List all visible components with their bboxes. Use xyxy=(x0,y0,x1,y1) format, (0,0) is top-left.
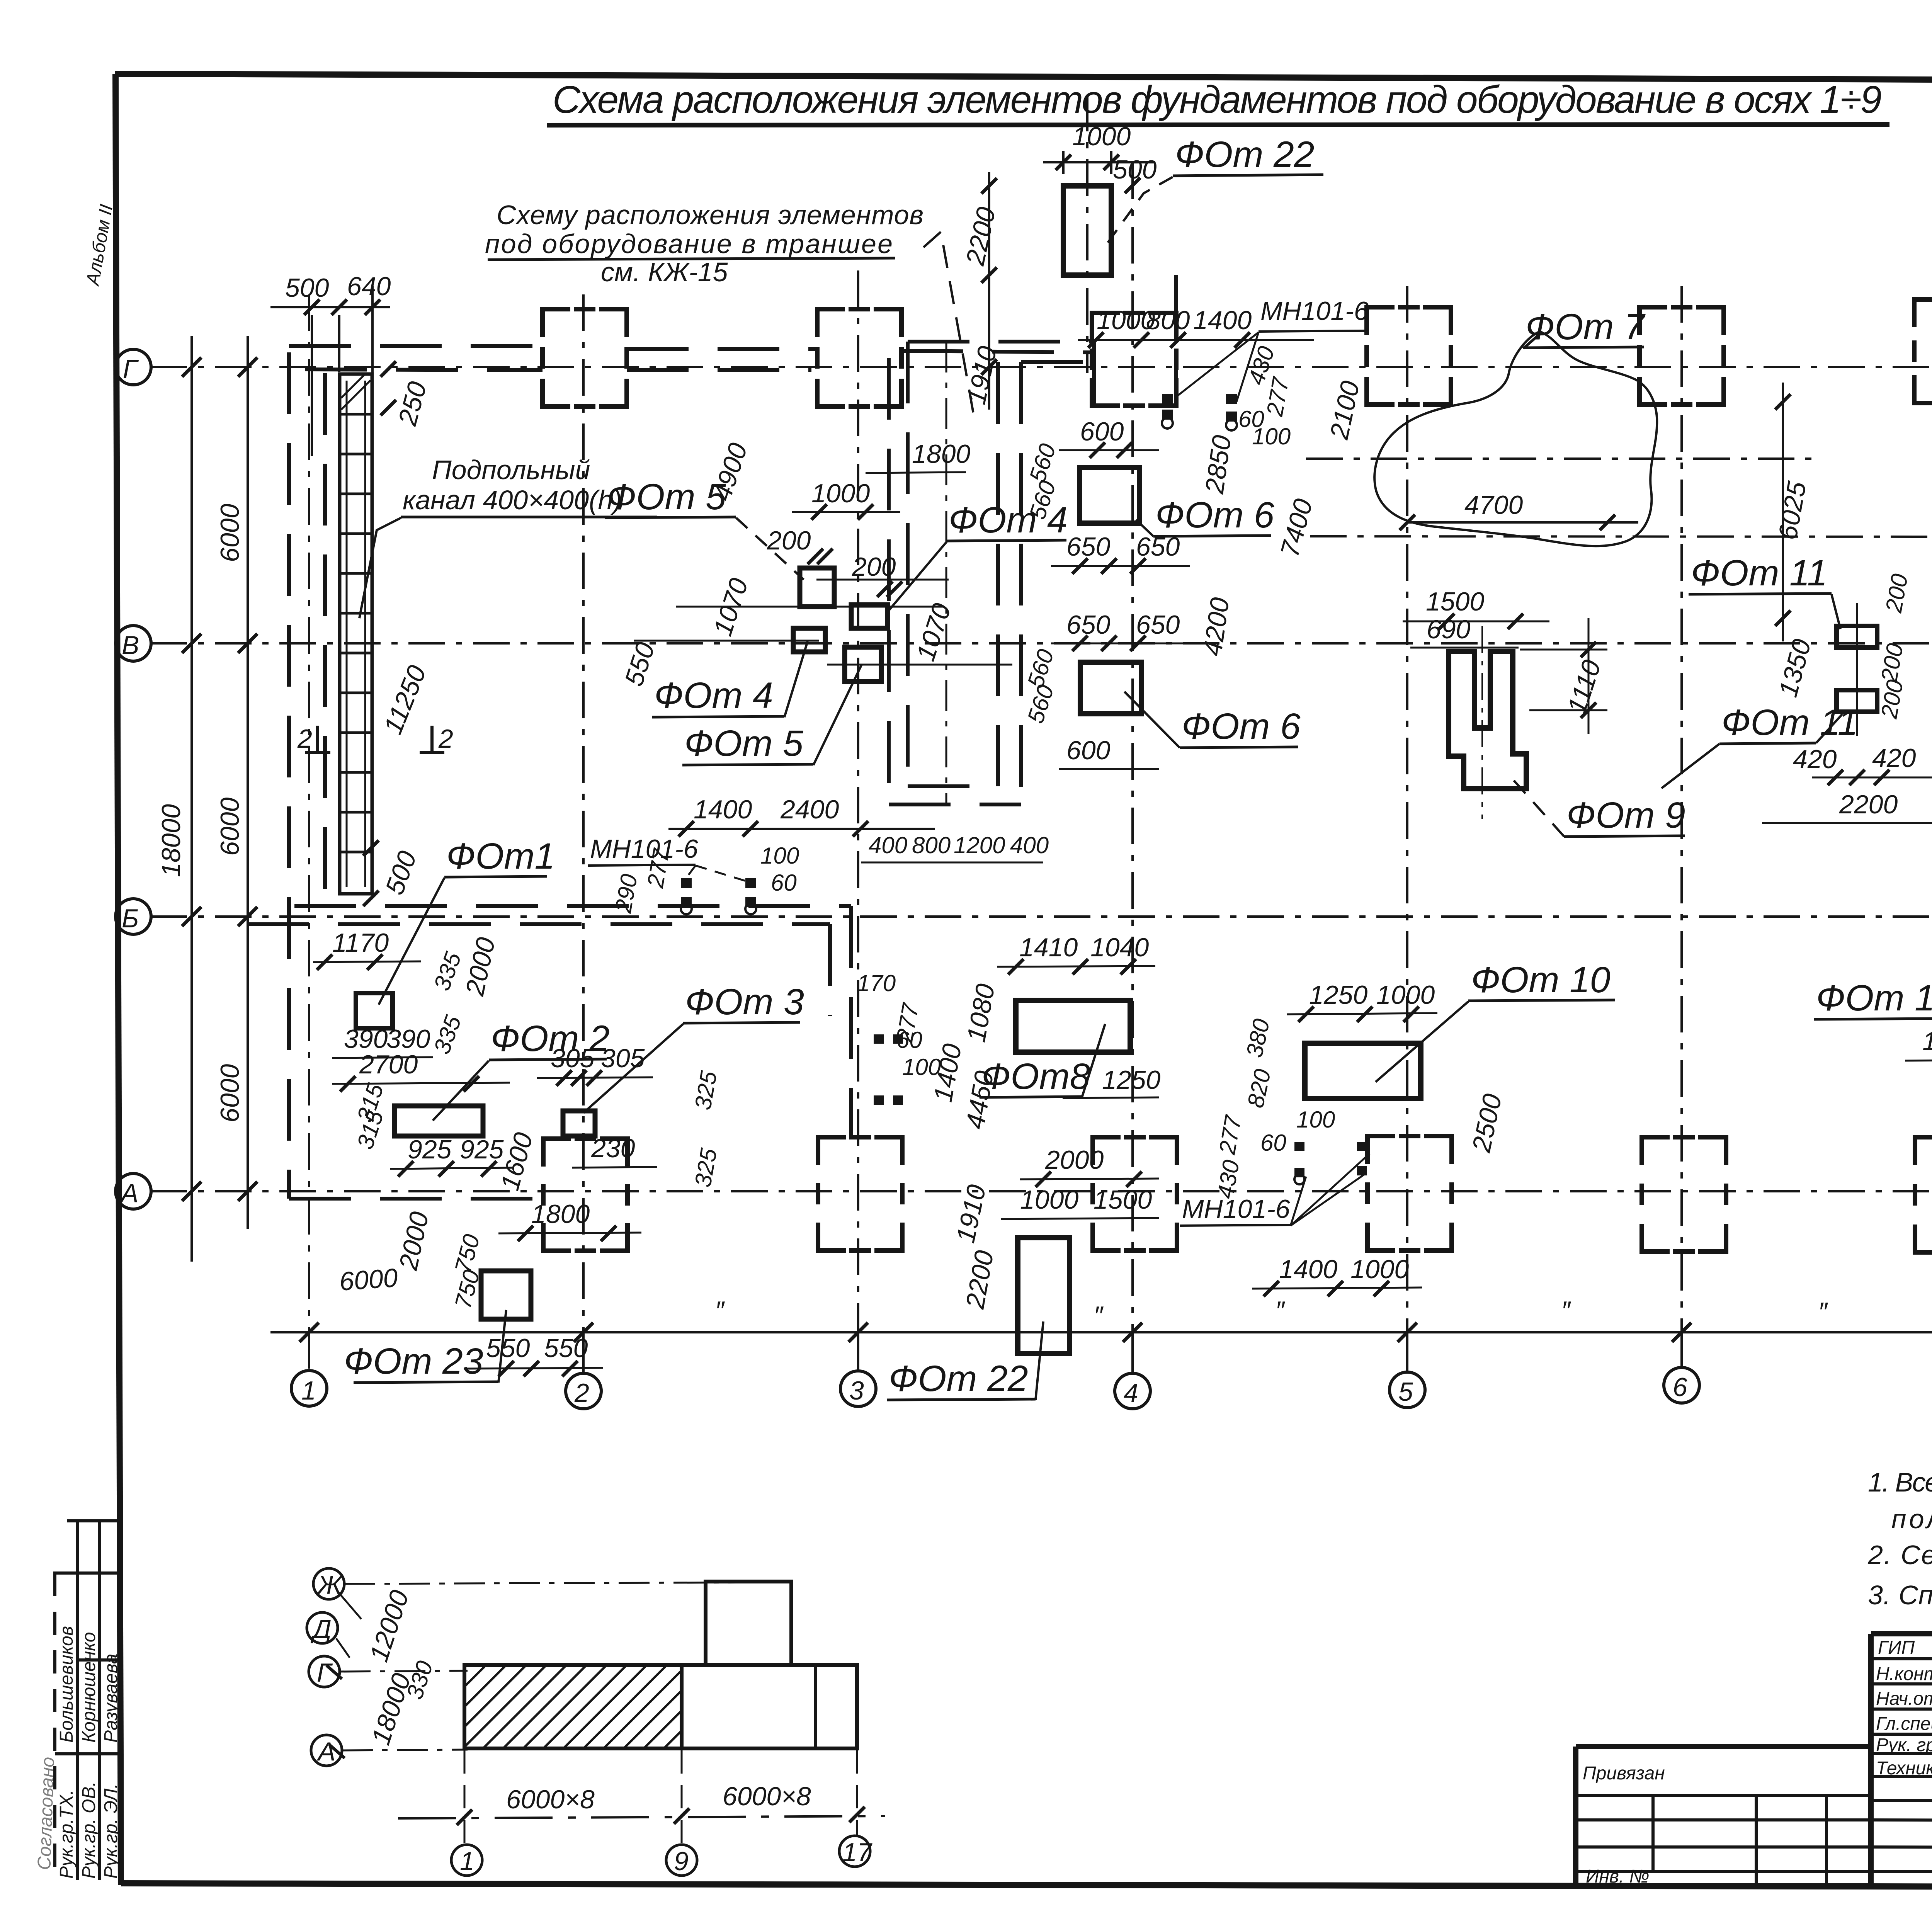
svg-text:420: 420 xyxy=(1872,743,1916,773)
svg-text:ФОт 4: ФОт 4 xyxy=(654,675,773,716)
svg-text:600: 600 xyxy=(1066,736,1111,765)
trench top to Г xyxy=(908,342,1096,362)
channel leader xyxy=(359,518,401,618)
keyplan circle 9 xyxy=(666,1845,697,1876)
anchor bolts near axis 3 xyxy=(874,1034,903,1105)
svg-text:ГИП: ГИП xyxy=(1878,1638,1915,1658)
svg-text:5: 5 xyxy=(1398,1377,1413,1406)
keyplan circle 1 xyxy=(451,1845,482,1876)
axis 1 line xyxy=(308,294,310,1332)
svg-text:305: 305 xyxy=(551,1044,595,1073)
svg-text:1250: 1250 xyxy=(1309,980,1367,1010)
keyplan circle Д xyxy=(307,1612,338,1643)
svg-text:Рук.гр. ЭЛ.: Рук.гр. ЭЛ. xyxy=(101,1784,121,1879)
axis circle А xyxy=(116,1173,151,1209)
section mark 2 right xyxy=(420,726,444,753)
cloud ФОт7 xyxy=(1374,332,1657,546)
svg-text:канал 400×400(h): канал 400×400(h) xyxy=(403,485,622,515)
keyplan axis leaders xyxy=(336,1592,361,1658)
axis Г horizontal chain line xyxy=(150,366,1932,368)
axis bottom circle 3 xyxy=(840,1371,876,1406)
svg-text:1: 1 xyxy=(460,1847,474,1876)
vertical axis lines 1-9 xyxy=(309,162,1932,1332)
anchor bolts at Г-4 xyxy=(1162,394,1237,422)
svg-text:800: 800 xyxy=(912,832,951,858)
foundation ФОт22 top xyxy=(1063,186,1111,275)
keyplan inner line xyxy=(814,1665,817,1748)
anchor bolts on Б wall xyxy=(681,878,756,907)
column А-2 xyxy=(543,1139,628,1251)
bottom dimension line xyxy=(270,1331,1932,1333)
svg-text:1040: 1040 xyxy=(1090,933,1149,962)
svg-text:″: ″ xyxy=(715,1296,725,1325)
trench near axis 4 verticals xyxy=(1094,275,1176,406)
svg-text:1000: 1000 xyxy=(1350,1255,1409,1284)
ladder rungs xyxy=(340,414,371,852)
svg-text:100: 100 xyxy=(1252,423,1291,449)
foundation ФОт9 left keyed block xyxy=(1449,651,1526,789)
svg-text:1150: 1150 xyxy=(1922,1027,1932,1056)
keyplan upper block xyxy=(706,1582,791,1665)
svg-text:650: 650 xyxy=(1066,610,1111,639)
wall: along А left xyxy=(289,1197,543,1201)
svg-text:1000: 1000 xyxy=(1020,1185,1078,1214)
keyplan circle Ж xyxy=(313,1568,344,1599)
svg-text:МН101-6: МН101-6 xyxy=(1260,296,1369,326)
left margin rotated labels xyxy=(34,1626,121,1879)
svg-text:Большевиков: Большевиков xyxy=(56,1626,77,1743)
svg-text:1000: 1000 xyxy=(1376,980,1435,1010)
svg-text:Корнюшенко: Корнюшенко xyxy=(79,1632,99,1743)
keyplan circle А xyxy=(311,1735,342,1766)
foundation ФОт5 square b xyxy=(851,605,888,628)
frame left line xyxy=(116,74,121,1885)
axis 4 line xyxy=(1131,162,1134,1332)
axis 5 line xyxy=(1406,286,1408,1332)
dim 2200/1910 vertical left of ФОт22 xyxy=(988,172,990,410)
svg-text:Схема расположения элементов: Схема расположения элементов фундаментов… xyxy=(553,78,1882,121)
svg-text:2400: 2400 xyxy=(780,795,839,824)
svg-text:60: 60 xyxy=(1260,1130,1286,1156)
axis line stubs to circles xyxy=(309,1332,1932,1372)
svg-text:под оборудование в траншее: под оборудование в траншее xyxy=(485,229,893,259)
dim 500/640 above channel xyxy=(270,286,390,456)
svg-text:ФОт 6: ФОт 6 xyxy=(1182,706,1301,747)
svg-text:305: 305 xyxy=(601,1044,645,1073)
machine centre line through ФОт7 cloud xyxy=(1306,457,1812,460)
foundation ФОт5 square c xyxy=(845,647,881,682)
svg-text:1000: 1000 xyxy=(811,479,870,508)
svg-text:Н.контр.: Н.контр. xyxy=(1876,1664,1932,1684)
svg-text:170: 170 xyxy=(857,970,896,996)
svg-text:ФОт 5: ФОт 5 xyxy=(684,723,804,764)
svg-text:ФОт 22: ФОт 22 xyxy=(1175,134,1315,175)
svg-text:″: ″ xyxy=(1275,1296,1285,1325)
axis Б horizontal chain line xyxy=(150,915,1932,918)
svg-text:3: 3 xyxy=(849,1376,864,1405)
foundation ФОт6 lower xyxy=(1080,662,1141,714)
foundation ФОт8 xyxy=(1016,1000,1130,1052)
svg-text:2: 2 xyxy=(574,1378,589,1408)
axis circle В xyxy=(116,626,151,661)
svg-text:2: 2 xyxy=(297,724,312,753)
svg-text:Схему расположения элементов: Схему расположения элементов xyxy=(497,200,923,230)
signature rows text xyxy=(1876,1638,1932,1779)
svg-text:1410: 1410 xyxy=(1019,933,1078,962)
svg-text:4: 4 xyxy=(1124,1378,1138,1408)
wall: Б-А vertical pair near axis 3 xyxy=(830,906,851,1137)
axis bottom circle 2 xyxy=(566,1373,601,1409)
foundation ФОт3 xyxy=(563,1111,595,1136)
keyplan circle Г xyxy=(309,1656,340,1687)
svg-text:Привязан: Привязан xyxy=(1583,1763,1665,1784)
column А-7 xyxy=(1915,1137,1932,1252)
section mark 2 left xyxy=(305,726,330,753)
svg-text:ФОт 7: ФОт 7 xyxy=(1526,306,1646,347)
svg-text:1250: 1250 xyxy=(1102,1065,1160,1095)
svg-text:Согласовано: Согласовано xyxy=(34,1757,58,1870)
svg-text:500: 500 xyxy=(285,273,329,303)
axis 3 line xyxy=(857,270,859,1332)
svg-text:″: ″ xyxy=(1818,1297,1828,1327)
svg-text:1500: 1500 xyxy=(1094,1185,1152,1214)
axis bottom circle 5 xyxy=(1389,1372,1425,1408)
svg-text:Б: Б xyxy=(122,904,139,933)
wall: Б inner xyxy=(247,922,830,926)
svg-text:ФОт 3: ФОт 3 xyxy=(685,981,804,1022)
machine centre line through ФОт13 xyxy=(1310,536,1932,537)
svg-text:650: 650 xyxy=(1066,532,1111,561)
svg-text:390: 390 xyxy=(386,1024,430,1054)
svg-text:1800: 1800 xyxy=(912,439,970,469)
svg-text:ФОт 22: ФОт 22 xyxy=(889,1358,1028,1399)
svg-text:ФОт 12: ФОт 12 xyxy=(1816,978,1932,1019)
bottom dim ticks xyxy=(299,1323,1932,1342)
trench bottom xyxy=(889,786,1021,804)
svg-text:200: 200 xyxy=(767,526,811,555)
column Г-5 xyxy=(1367,307,1451,405)
svg-text:Д: Д xyxy=(310,1614,332,1644)
svg-text:1500: 1500 xyxy=(1426,587,1484,616)
keyplan circle 17 xyxy=(839,1836,870,1867)
column Г-2 xyxy=(543,309,627,406)
svg-text:2200: 2200 xyxy=(1839,790,1898,819)
foundation ФОт6 upper xyxy=(1080,468,1139,523)
svg-text:400: 400 xyxy=(869,832,907,858)
column А-3 xyxy=(818,1137,902,1250)
svg-text:6000: 6000 xyxy=(215,798,245,856)
svg-text:ФОт 6: ФОт 6 xyxy=(1155,495,1274,536)
svg-text:Рук. гр.: Рук. гр. xyxy=(1876,1735,1932,1755)
svg-text:ФОт 9: ФОт 9 xyxy=(1566,795,1685,836)
keyplan building outline xyxy=(464,1665,857,1748)
foundation ФОт11 lower xyxy=(1837,690,1877,712)
frame bottom line xyxy=(121,1883,1932,1888)
axis bottom circle 6 xyxy=(1664,1367,1699,1403)
titleblock outline xyxy=(1576,1634,1932,1887)
svg-text:см. КЖ-15: см. КЖ-15 xyxy=(601,257,728,287)
svg-text:650: 650 xyxy=(1136,610,1180,639)
trench centre line xyxy=(946,342,947,804)
svg-text:ФОт 10: ФОт 10 xyxy=(1471,959,1611,1000)
axis 2 line xyxy=(582,294,585,1332)
axis В horizontal chain line xyxy=(150,642,1932,645)
keyplan dim ticks left xyxy=(327,1665,345,1758)
svg-text:Инв. №: Инв. № xyxy=(1586,1866,1649,1887)
svg-text:6000: 6000 xyxy=(215,504,245,562)
svg-text:1000: 1000 xyxy=(1072,122,1131,151)
svg-text:1400: 1400 xyxy=(1279,1255,1337,1284)
dim lines through ФОт4/5 cluster xyxy=(634,580,1012,665)
svg-text:1800: 1800 xyxy=(531,1199,590,1229)
svg-text:Нач.отд.: Нач.отд. xyxy=(1876,1689,1932,1709)
svg-text:ФОт 23: ФОт 23 xyxy=(344,1341,483,1382)
svg-text:1: 1 xyxy=(301,1376,316,1405)
left dim chain 6000s xyxy=(247,336,249,1229)
svg-text:А: А xyxy=(316,1737,335,1766)
left dim chain 18000 xyxy=(190,336,193,1262)
svg-text:400: 400 xyxy=(1010,832,1049,858)
svg-text:6000: 6000 xyxy=(215,1064,245,1122)
svg-text:60: 60 xyxy=(771,870,797,896)
svg-text:1400: 1400 xyxy=(694,795,752,824)
svg-text:3. Спецификацию см. на лист: 3. Спецификацию см. на листе КЖ-15. xyxy=(1868,1580,1932,1610)
svg-text:6000×8: 6000×8 xyxy=(723,1782,811,1811)
foundation ФОт11 upper xyxy=(1837,626,1877,648)
column Г-6 xyxy=(1639,307,1724,405)
keyplan axis line Г xyxy=(340,1671,468,1672)
svg-text:Разуваева: Разуваева xyxy=(101,1654,121,1743)
foundation ФОт2 xyxy=(395,1106,483,1136)
leader from note to trench xyxy=(923,232,974,415)
keyplan axis line Ж xyxy=(344,1582,792,1584)
svg-text:Ж: Ж xyxy=(316,1570,343,1600)
svg-text:2: 2 xyxy=(438,724,453,753)
svg-text:″: ″ xyxy=(1094,1301,1104,1330)
svg-text:640: 640 xyxy=(347,272,391,301)
svg-text:17: 17 xyxy=(842,1838,872,1867)
svg-text:550: 550 xyxy=(544,1333,588,1363)
svg-text:2700: 2700 xyxy=(359,1050,418,1079)
underground channel ladder inner rails xyxy=(347,381,365,887)
svg-text:1. Все незамаркированные пли: 1. Все незамаркированные плиты перекрыти… xyxy=(1868,1467,1932,1497)
svg-text:А: А xyxy=(119,1179,138,1208)
svg-text:200: 200 xyxy=(852,552,896,582)
svg-text:Рук.гр. ОВ.: Рук.гр. ОВ. xyxy=(79,1781,99,1879)
keyplan hatched block xyxy=(464,1665,682,1748)
titleblock left grid xyxy=(1576,1796,1871,1886)
svg-text:6000: 6000 xyxy=(338,1263,399,1296)
svg-text:100: 100 xyxy=(760,843,799,869)
svg-text:100: 100 xyxy=(1296,1107,1335,1133)
column Г-4 xyxy=(1092,313,1176,406)
axis circle Б xyxy=(116,899,151,934)
svg-text:650: 650 xyxy=(1136,532,1180,561)
svg-text:2000: 2000 xyxy=(1045,1145,1104,1175)
foundation ФОт5 square a xyxy=(800,568,834,607)
wall: building left edge along axis 1 xyxy=(287,352,291,1199)
column А-4 xyxy=(1093,1137,1177,1250)
svg-text:Гл.спец.: Гл.спец. xyxy=(1876,1714,1932,1734)
svg-text:420: 420 xyxy=(1793,745,1837,774)
svg-text:500: 500 xyxy=(1113,155,1157,184)
channel hatch top xyxy=(341,375,371,410)
svg-text:Г: Г xyxy=(123,354,139,384)
svg-text:925: 925 xyxy=(408,1135,452,1164)
keyplan axis stubs xyxy=(464,1750,857,1845)
svg-text:ФОт 11: ФОт 11 xyxy=(1721,702,1858,743)
svg-text:ФОт 11: ФОт 11 xyxy=(1691,553,1828,594)
svg-text:В: В xyxy=(122,631,139,660)
axis bottom circle 1 xyxy=(291,1371,327,1406)
svg-text:1200: 1200 xyxy=(954,832,1005,858)
bolts group below ФОт10 xyxy=(1294,1142,1367,1177)
svg-text:ФОт1: ФОт1 xyxy=(446,836,555,877)
foundation ФОт22 bottom xyxy=(1018,1238,1070,1354)
wall: below Г inner xyxy=(323,373,327,896)
foundation ФОт4 square a xyxy=(793,628,825,652)
svg-text:9: 9 xyxy=(674,1847,689,1876)
svg-text:Г: Г xyxy=(317,1658,333,1687)
foundation ФОт1 xyxy=(356,993,393,1028)
signature table grid xyxy=(1871,1634,1932,1872)
svg-text:690: 690 xyxy=(1427,615,1471,644)
svg-text:МН101-6: МН101-6 xyxy=(590,834,698,864)
keyplan dim line xyxy=(398,1816,885,1818)
centre line ФОт22 top xyxy=(1086,95,1088,373)
svg-text:390: 390 xyxy=(344,1024,388,1054)
foundation ФОт10 xyxy=(1305,1043,1421,1099)
svg-text:800: 800 xyxy=(1146,306,1190,335)
frame top line xyxy=(115,74,1932,82)
dims at ФОт22 top xyxy=(1043,151,1155,174)
wall: Б outer xyxy=(294,904,851,908)
svg-text:6: 6 xyxy=(1673,1372,1687,1402)
column Г-7 xyxy=(1914,299,1932,403)
svg-text:2. Сечения 1-1, 2-2 см. на: 2. Сечения 1-1, 2-2 см. на листе КЖ-16. xyxy=(1867,1540,1932,1570)
keyplan axis line А xyxy=(342,1750,468,1750)
svg-text:230: 230 xyxy=(591,1134,635,1163)
column А-5 xyxy=(1367,1136,1452,1250)
svg-text:1170: 1170 xyxy=(332,928,389,957)
wall: top edge along Г xyxy=(289,346,1092,352)
svg-text:925: 925 xyxy=(460,1135,504,1164)
svg-text:18000: 18000 xyxy=(156,804,186,877)
foundation ФОт23 xyxy=(481,1271,531,1319)
svg-text:ФОт 5: ФОт 5 xyxy=(607,476,726,517)
svg-text:МН101-6: МН101-6 xyxy=(1182,1194,1290,1224)
axis bottom circle 4 xyxy=(1115,1373,1150,1409)
axis circle Г xyxy=(116,349,151,385)
svg-text:1400: 1400 xyxy=(1193,306,1252,335)
svg-text:600: 600 xyxy=(1080,417,1124,446)
svg-text:Рук.гр.ТХ.: Рук.гр.ТХ. xyxy=(56,1790,77,1879)
left margin table xyxy=(53,1521,121,1880)
svg-text:Подпольный: Подпольный xyxy=(432,455,590,485)
axis А horizontal chain line xyxy=(150,1190,1932,1192)
underground channel ladder outer xyxy=(340,374,372,894)
svg-text:6000×8: 6000×8 xyxy=(506,1785,595,1814)
svg-text:″: ″ xyxy=(1561,1296,1571,1325)
axis 6 line xyxy=(1680,286,1683,1332)
column Г-3 xyxy=(817,309,901,406)
svg-text:польных каналов - ПТ 3.: польных каналов - ПТ 3. xyxy=(1891,1504,1932,1534)
column А-6 xyxy=(1642,1137,1726,1252)
trench rails vertical (axis 3 right) xyxy=(889,342,908,804)
svg-text:550: 550 xyxy=(486,1333,530,1363)
svg-text:4700: 4700 xyxy=(1464,490,1523,520)
title underline xyxy=(547,124,1889,125)
svg-text:Техник: Техник xyxy=(1876,1758,1932,1779)
